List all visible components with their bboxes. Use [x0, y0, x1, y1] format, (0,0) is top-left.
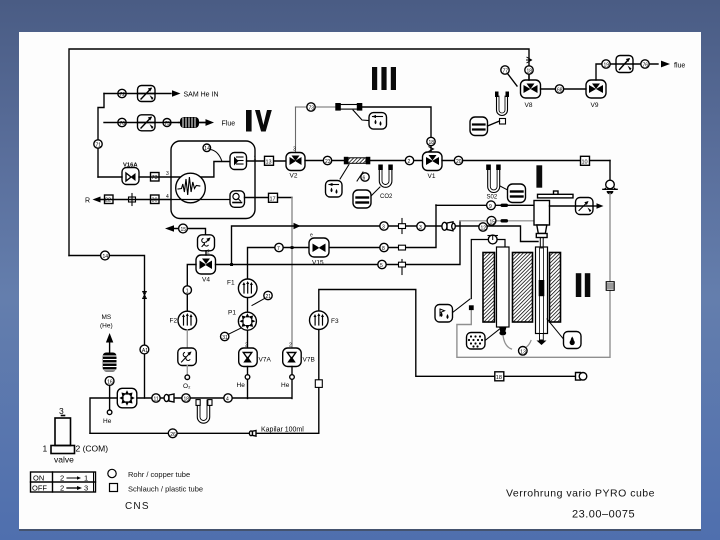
gauge circle 3: [380, 222, 388, 231]
svg-text:71: 71: [96, 143, 102, 149]
reactor stem: [540, 238, 543, 248]
gauge circle 70: [118, 118, 126, 127]
arrow dsp vent: [593, 203, 604, 209]
wire riser 231: [232, 226, 539, 265]
svg-text:MS: MS: [102, 314, 112, 321]
svg-text:(He): (He): [100, 323, 113, 330]
wire 31 diag: [228, 328, 241, 335]
svg-text:30: 30: [152, 198, 158, 204]
wire fu diag: [453, 299, 471, 313]
furnace column mid: [513, 253, 533, 323]
cross fitting: [129, 194, 136, 206]
svg-text:10: 10: [582, 159, 588, 165]
svg-text:CNS: CNS: [125, 501, 150, 512]
svg-text:valve: valve: [54, 455, 74, 465]
svg-text:13: 13: [266, 159, 272, 165]
valve V1: [423, 152, 443, 171]
fitting crd a: [501, 204, 509, 207]
wire circle14 curve: [211, 150, 223, 162]
svg-text:He: He: [281, 382, 290, 389]
junction dot V15row: [291, 246, 294, 249]
vent arrow left: [165, 225, 174, 231]
reactor head: [534, 201, 550, 226]
svg-text:2: 2: [289, 343, 292, 349]
gauge circle 23: [323, 156, 331, 165]
fitting above V1: [429, 147, 434, 152]
gauge circle 75: [163, 119, 171, 128]
ON OFF table: [31, 472, 96, 492]
svg-text:3: 3: [166, 171, 169, 177]
gauge circle 77: [501, 66, 509, 75]
svg-text:3: 3: [293, 147, 296, 153]
wire V1 to 10: [442, 160, 610, 162]
hose capillary: [503, 336, 531, 350]
tube valve top: [488, 235, 497, 244]
gauge circle 6: [361, 173, 369, 182]
MS arrow up: [106, 333, 113, 343]
square 10: [581, 156, 590, 165]
furnace circle with squiggle: [171, 173, 229, 203]
pressure regulator O2: [178, 348, 197, 366]
flowmeter F3: [310, 311, 329, 330]
svg-text:CO2: CO2: [380, 194, 393, 200]
wire V7A to He: [247, 367, 249, 399]
wire row 220 gray: [460, 220, 534, 222]
svg-text:72: 72: [120, 92, 126, 98]
gauge circle 8: [380, 243, 388, 252]
wire V16A jog to E: [171, 162, 229, 178]
wire 77 diagonal: [508, 74, 518, 87]
svg-text:3: 3: [382, 225, 385, 231]
square 17: [269, 193, 278, 202]
gauge circle 18: [525, 66, 533, 75]
square 18b: [495, 372, 504, 381]
regulator B: [198, 235, 215, 251]
svg-text:P1: P1: [228, 310, 236, 317]
port O2: [185, 375, 190, 380]
wire tube valve right: [497, 240, 505, 248]
wire O to 17 corner: [245, 197, 293, 199]
flowmeter F1: [238, 279, 257, 298]
wire R row: [100, 199, 171, 201]
wire kapilar loop: [90, 432, 319, 434]
svg-text:15: 15: [490, 219, 496, 225]
panel bottom shadow: [19, 529, 701, 531]
wire tank T1 diag: [371, 187, 380, 196]
wire tube to dropbox: [547, 319, 564, 339]
pressure regulator flue top: [616, 56, 633, 73]
arrow flue: [661, 61, 670, 68]
wire V7B to He: [291, 367, 293, 399]
gauge circle 19: [602, 60, 610, 69]
svg-text:23: 23: [325, 159, 331, 165]
gauge circle 14: [203, 144, 211, 152]
svg-text:2: 2: [60, 474, 64, 483]
filter BP: [606, 282, 614, 291]
wire dotsbox diag: [485, 330, 499, 341]
wire row 205: [436, 204, 534, 206]
svg-text:V7A: V7A: [259, 357, 272, 364]
svg-text:16: 16: [107, 380, 113, 386]
svg-text:31: 31: [222, 335, 228, 341]
heater element E: [230, 153, 247, 170]
port He A: [245, 375, 250, 380]
junction dot V4row: [230, 263, 233, 266]
svg-text:18: 18: [496, 375, 502, 381]
svg-text:1: 1: [186, 289, 189, 295]
svg-text:23.00–0075: 23.00–0075: [572, 509, 635, 521]
coil heater: [179, 117, 207, 128]
svg-text:11: 11: [154, 397, 159, 403]
svg-text:1: 1: [43, 444, 48, 454]
svg-text:4: 4: [226, 397, 229, 403]
port He B: [290, 375, 295, 380]
wire stub to V8: [528, 74, 530, 80]
gauge circle 18a: [427, 137, 435, 146]
gauge circle 15b: [487, 216, 496, 225]
square 13: [265, 156, 274, 165]
svg-text:2: 2: [207, 250, 210, 256]
wire E to 13: [247, 160, 287, 162]
sample tube III: [335, 103, 362, 111]
pump P1: [238, 312, 256, 330]
svg-text:V1: V1: [428, 173, 436, 180]
svg-text:22: 22: [105, 198, 111, 204]
svg-text:70: 70: [120, 121, 126, 127]
oven box: [171, 141, 255, 219]
wire tank T2 diag: [500, 186, 508, 190]
cross fitting row226: [399, 219, 406, 234]
square 22: [105, 195, 114, 204]
svg-text:14: 14: [204, 146, 210, 152]
svg-text:3: 3: [84, 484, 88, 493]
svg-text:V9: V9: [591, 102, 599, 109]
svg-text:V15: V15: [312, 260, 324, 267]
svg-text:12: 12: [481, 226, 487, 232]
8-way valve: [117, 388, 137, 408]
wire tube diag IV: [340, 165, 363, 182]
arrow R: [93, 197, 101, 203]
svg-text:3: 3: [419, 225, 422, 231]
square 73: [151, 173, 160, 182]
svg-text:SAM He IN: SAM He IN: [184, 92, 219, 99]
valve V8: [521, 80, 541, 98]
svg-text:19: 19: [604, 63, 610, 69]
reactor tube tip: [537, 334, 547, 346]
carrier tube left: [497, 247, 510, 327]
arrow Flue: [206, 119, 215, 126]
sensor O: [230, 191, 245, 208]
wire tube valve left: [471, 240, 488, 299]
gauge circle 5: [378, 260, 386, 269]
svg-text:V8: V8: [525, 102, 533, 109]
glass U-tube SO2: [486, 165, 501, 193]
drop collector box: [564, 332, 582, 349]
svg-text:Verrohrung vario PYRO cube: Verrohrung vario PYRO cube: [506, 488, 655, 500]
ON row arrow: [67, 476, 81, 480]
numeral III: [372, 67, 396, 90]
degasser dsp: [576, 198, 594, 215]
MS bellows: [103, 353, 117, 372]
furnace column left: [483, 253, 495, 323]
svg-text:17: 17: [270, 196, 276, 202]
svg-text:F3: F3: [331, 318, 339, 325]
wire F3 down: [318, 330, 320, 434]
svg-text:Rohr / copper tube: Rohr / copper tube: [128, 470, 190, 479]
wire MS to row: [109, 385, 111, 398]
valve V16A: [122, 168, 139, 185]
svg-text:flue: flue: [674, 63, 685, 70]
wire SAM branch: [104, 93, 171, 95]
separator fu box: [435, 305, 453, 323]
wire to V16A: [98, 176, 122, 178]
gauge circle 4: [224, 394, 232, 403]
svg-text:He: He: [103, 418, 112, 425]
flow arrow row226: [294, 223, 301, 229]
cross fitting row265: [399, 260, 406, 275]
check fitting MS: [143, 292, 147, 299]
wire III row right: [361, 107, 431, 152]
wire P1 to V7A: [247, 330, 249, 348]
numeral II: [576, 273, 591, 297]
svg-text:1: 1: [84, 474, 88, 483]
svg-text:2 (COM): 2 (COM): [76, 444, 109, 454]
tank T1: [353, 190, 371, 208]
svg-text:V7B: V7B: [303, 357, 315, 364]
wire 21 diag: [252, 298, 265, 305]
wire F2 to regulator gray: [186, 330, 188, 348]
valve V9: [586, 80, 606, 98]
gauge circle 31: [221, 332, 229, 341]
svg-text:21: 21: [266, 294, 272, 300]
svg-text:13: 13: [520, 349, 526, 355]
svg-text:A1: A1: [142, 348, 148, 354]
svg-text:26: 26: [170, 432, 176, 438]
svg-text:2: 2: [60, 484, 64, 493]
gauge circle A1: [140, 345, 149, 354]
square 30: [151, 195, 160, 204]
end plug: [576, 373, 587, 381]
valve V2: [286, 147, 305, 171]
svg-text:68: 68: [557, 88, 563, 94]
fitting kapilar: [249, 431, 256, 437]
reactor tube: [536, 247, 548, 334]
pressure regulator Flue: [138, 115, 156, 131]
wire vent to B: [172, 229, 206, 236]
wire V8 to V9: [541, 88, 587, 90]
svg-text:76: 76: [643, 63, 649, 69]
svg-text:V4: V4: [202, 277, 210, 284]
svg-text:OFF: OFF: [32, 484, 47, 493]
legend copper tube symbol: [108, 469, 116, 477]
svg-text:4: 4: [166, 194, 169, 200]
wire tube diag III: [353, 110, 369, 121]
relief vent lamp: [603, 180, 618, 194]
svg-text:3: 3: [59, 406, 64, 416]
svg-text:18: 18: [429, 140, 435, 146]
tank T3: [470, 117, 488, 136]
glass U-trap small: [495, 92, 509, 125]
wire 10 corner down: [609, 161, 611, 182]
gauge circle 1: [183, 286, 191, 295]
wire V2 to V1: [305, 160, 422, 162]
gauge circle 73b: [307, 103, 315, 112]
wire He stub: [109, 398, 111, 410]
gauge circle 3b: [417, 222, 425, 231]
svg-text:73: 73: [152, 175, 158, 181]
svg-text:73: 73: [309, 106, 315, 112]
square fitting F3: [315, 380, 322, 388]
svg-text:15: 15: [181, 227, 187, 233]
wire regulator to O2 port: [186, 366, 188, 376]
wire MS corner: [69, 256, 145, 399]
gauge circle 20: [454, 156, 462, 165]
wire tank to trap: [488, 121, 500, 126]
svg-text:2: 2: [245, 343, 248, 349]
wire lamp down gray: [457, 194, 610, 358]
svg-text:F1: F1: [227, 280, 235, 287]
wire main bottom row: [90, 398, 292, 433]
wire top frame: [69, 49, 529, 256]
gauge circle 12: [479, 223, 487, 232]
tank T2: [508, 184, 526, 203]
svg-text:e: e: [310, 233, 313, 239]
svg-text:S02: S02: [487, 195, 498, 201]
svg-text:V2: V2: [290, 173, 298, 180]
svg-text:Schlauch / plastic tube: Schlauch / plastic tube: [128, 485, 203, 494]
valve V4: [196, 250, 216, 275]
svg-text:O₂: O₂: [183, 383, 191, 390]
gauge circle 15a: [179, 224, 188, 233]
furnace column right: [550, 253, 561, 323]
wire reactor to dsp: [550, 205, 576, 207]
reducer fitting: [442, 222, 455, 231]
svg-text:He: He: [237, 382, 246, 389]
dots filter box: [467, 333, 486, 350]
svg-text:7: 7: [277, 246, 280, 252]
glass U-tube bottom: [196, 400, 212, 424]
svg-text:F2: F2: [170, 318, 178, 325]
svg-text:18: 18: [184, 397, 190, 403]
wire MS arrow stem: [109, 343, 111, 353]
svg-text:R: R: [85, 198, 90, 205]
gauge circle 7: [275, 243, 283, 252]
wire Flue branch: [104, 122, 206, 124]
gauge circle 14b: [101, 251, 110, 260]
valve V7B: [283, 343, 302, 367]
wire V4 right long: [216, 221, 461, 265]
gauge circle 71: [94, 140, 102, 149]
reducer fitting bottom: [164, 394, 174, 402]
reactor neck: [537, 225, 547, 234]
pressure regulator SAM: [138, 86, 156, 102]
gauge circle 18c: [182, 394, 190, 403]
funnel left: [499, 327, 507, 336]
wire B to V4: [205, 251, 207, 255]
gauge circle 21: [264, 291, 272, 300]
svg-text:6: 6: [363, 176, 366, 182]
svg-text:20: 20: [456, 159, 462, 165]
gauge circle 11: [152, 394, 160, 403]
svg-text:5: 5: [380, 263, 383, 269]
sample tube IV: [344, 157, 371, 165]
arrow SAM He IN: [172, 90, 181, 96]
fitting above V8: [527, 57, 532, 63]
valve drawing tower: [51, 416, 75, 454]
flowmeter F2: [178, 311, 197, 330]
valve V15: [309, 233, 329, 258]
svg-text:14: 14: [103, 254, 109, 260]
wire V7B riser: [291, 198, 293, 349]
port He MS: [107, 410, 112, 415]
wire F1 to P1: [247, 298, 249, 313]
wire V15 row: [248, 205, 437, 288]
wire V4 left down: [187, 265, 196, 312]
wire F3 loop: [319, 290, 576, 377]
svg-text:8: 8: [382, 246, 385, 252]
fitting crd b: [501, 219, 509, 222]
node black: [469, 305, 474, 310]
legend plastic tube symbol: [110, 484, 118, 492]
wire V16A to oven: [139, 176, 171, 178]
gauge circle 16: [105, 377, 114, 386]
valve V7A: [239, 343, 258, 367]
svg-text:75: 75: [165, 121, 171, 127]
cross fitting row247: [399, 245, 406, 250]
gauge circle 13h: [519, 347, 528, 356]
gauge circle 68: [555, 85, 563, 94]
glass U-tube CO2: [378, 165, 393, 188]
gauge circle 26: [168, 429, 177, 438]
OFF row arrow: [67, 486, 82, 490]
svg-text:Kapilar 100ml: Kapilar 100ml: [261, 427, 304, 434]
svg-text:2: 2: [408, 159, 411, 165]
svg-text:ON: ON: [33, 474, 44, 483]
numeral IV: [246, 110, 272, 132]
wire V9 to flue: [596, 64, 658, 80]
gauge circle 2: [405, 156, 413, 165]
wire III row horizontal: [296, 106, 337, 108]
wire III row: [295, 107, 297, 153]
svg-text:Flue: Flue: [222, 121, 236, 128]
gauge circle 72: [118, 89, 126, 98]
gauge circle 9: [487, 201, 496, 210]
sampler box III: [369, 113, 387, 130]
reactor flange: [536, 234, 547, 238]
svg-text:9: 9: [489, 204, 492, 210]
sampler box IV: [326, 181, 343, 198]
wire branch riser: [98, 94, 104, 178]
numeral I: [536, 165, 542, 187]
gauge circle 76: [641, 60, 649, 69]
reactor lid: [538, 191, 574, 198]
